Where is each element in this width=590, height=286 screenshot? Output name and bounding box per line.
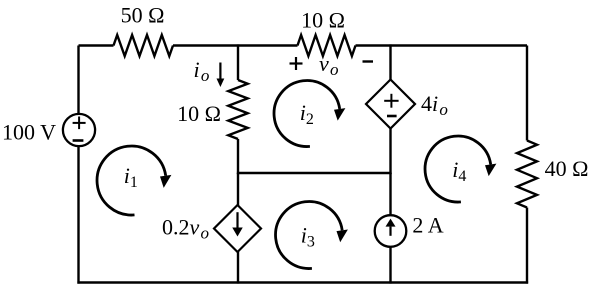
svg-text:10 Ω: 10 Ω — [301, 8, 345, 33]
svg-text:i1: i1 — [124, 163, 138, 191]
svg-text:io: io — [194, 57, 210, 85]
svg-text:i4: i4 — [452, 157, 466, 185]
svg-text:0.2vo: 0.2vo — [162, 215, 209, 243]
svg-text:100 V: 100 V — [2, 120, 56, 145]
svg-text:i3: i3 — [301, 223, 315, 251]
svg-text:2 A: 2 A — [412, 213, 443, 238]
svg-text:vo: vo — [319, 51, 338, 79]
svg-text:40 Ω: 40 Ω — [545, 156, 589, 181]
svg-text:10 Ω: 10 Ω — [177, 101, 221, 126]
svg-text:50 Ω: 50 Ω — [121, 3, 165, 28]
svg-text:4io: 4io — [421, 91, 448, 119]
svg-text:i2: i2 — [300, 100, 314, 128]
